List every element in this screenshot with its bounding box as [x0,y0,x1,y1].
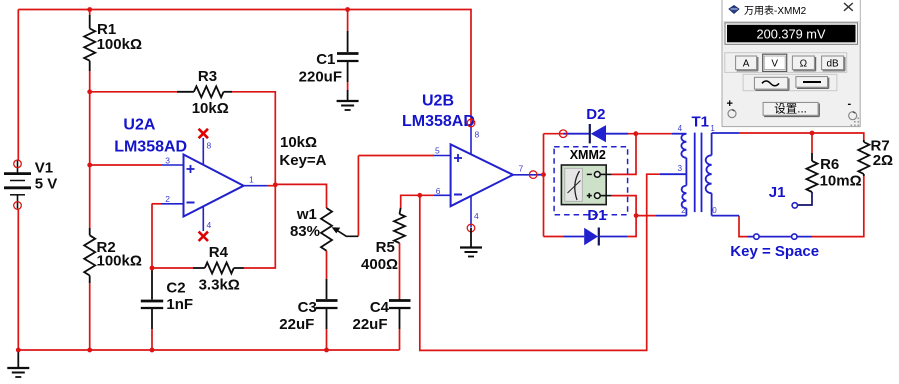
wire U2A output to node [267,185,275,187]
svg-text:XMM2: XMM2 [570,148,606,162]
svg-text:4: 4 [678,124,683,133]
svg-text:8: 8 [475,130,480,140]
ground below C1 [337,90,359,110]
svg-text:220uF: 220uF [299,69,342,86]
wire R1 bottom to R3 node [89,71,91,92]
svg-text:100kΩ: 100kΩ [97,36,142,53]
svg-text:C3: C3 [298,299,317,316]
wire R4 row right feedback [244,185,275,268]
wire C3 bottom [326,329,328,350]
diode D2 [559,124,628,143]
wire left battery branch top [17,10,19,161]
svg-text:U2A: U2A [123,116,155,133]
svg-text:LM358AD: LM358AD [402,113,475,130]
wire C4 bottom [399,329,401,350]
junction pin6 [417,193,422,198]
wire wiper riser from U2B pin5 [357,156,359,236]
button line [796,77,828,88]
wire top supply rail [18,10,471,127]
junction rail C3 [324,348,329,353]
svg-text:J1: J1 [769,184,786,201]
multimeter XMM2 icon [561,165,611,205]
svg-text:-: - [848,98,852,110]
resistor R6 [797,153,862,205]
wire XMM2 minus terminal riser [612,134,636,175]
svg-text:R3: R3 [198,68,217,85]
svg-text:U2B: U2B [422,93,454,110]
svg-text:Key = Space: Key = Space [730,243,819,260]
junction pin7/diodes [541,172,546,177]
svg-text:5 V: 5 V [35,176,58,193]
transformer T1 [656,124,739,216]
button A [736,56,757,70]
wire R5 bottom to C4 [399,243,401,300]
svg-text:83%: 83% [290,223,320,240]
svg-text:R6: R6 [820,156,839,173]
wire D2 row right to T1 pin4 [628,133,672,135]
resistor R2 [84,228,142,283]
wire D1 row right [628,216,637,237]
multimeter XMM2 dashed box [554,147,628,215]
wire C1 bottom stub [347,82,349,90]
svg-text:2: 2 [165,194,170,204]
svg-text:C1: C1 [316,51,335,68]
svg-text:10kΩ: 10kΩ [192,100,229,117]
wire R2 column [89,92,91,228]
svg-text:V: V [771,58,778,69]
button settings [763,102,818,115]
multimeter panel window [722,0,860,127]
svg-text:4: 4 [207,220,212,230]
junction output node [273,182,278,187]
svg-text:+: + [727,98,733,110]
svg-text:5: 5 [435,145,440,155]
junction top rail C1 [345,7,350,12]
wire D2 row left [544,133,564,135]
svg-text:100kΩ: 100kΩ [97,253,142,270]
wire R6 top stub [811,133,813,153]
svg-text:0: 0 [712,206,717,215]
svg-text:1nF: 1nF [166,296,193,313]
button dB [822,56,844,70]
capacitor C4 [352,299,410,333]
svg-text:10kΩ: 10kΩ [280,134,317,151]
svg-text:dB: dB [826,58,839,69]
svg-text:w1: w1 [296,206,317,223]
capacitor C2 [141,268,193,329]
junction pin3 [87,163,92,168]
wire R7 bottom to switch row [812,176,864,237]
svg-text:Ω: Ω [800,58,808,69]
wire R3 row right to output node [232,92,275,185]
svg-text:4: 4 [474,211,479,221]
wire w1 bottom to C3 [326,251,328,279]
no-connect X U2A pin8 [199,129,208,138]
diode D1 [564,228,628,246]
junction rail R2 [87,348,92,353]
wire T1 pin1 to right rail [739,133,864,140]
resistor R1 [84,15,142,71]
wire XMM2 plus terminal drop [612,196,637,216]
wire pin6 node down and across to T1 pin3 riser [420,174,660,350]
svg-text:3: 3 [165,156,170,166]
svg-text:7: 7 [519,164,524,174]
wire bottom ground rail [18,349,399,351]
wire R2 bottom [89,283,91,350]
wire R4 row left [152,267,193,269]
wire U2B pin5 row [358,155,434,157]
svg-text:200.379 mV: 200.379 mV [756,27,825,42]
junction plus/T1 pin2 [634,213,639,218]
svg-text:8: 8 [207,141,212,151]
button V (selected) [763,54,787,71]
svg-text:C4: C4 [370,299,390,316]
wire T1 pin0 drop [739,216,748,237]
svg-text:6: 6 [436,186,441,196]
junction pin2/R4/C2 [150,266,155,271]
wire R1 top stub [89,10,91,16]
terminal circle U2B pin4 [467,224,475,232]
svg-text:3: 3 [678,164,683,173]
no-connect X U2A pin4 [199,232,208,241]
wire node to potentiometer w1 [275,184,326,208]
wire left battery branch bottom [17,210,19,351]
junction D2/T1 pin4 [633,131,638,136]
capacitor C3 [279,279,337,333]
svg-text:400Ω: 400Ω [361,256,398,273]
wire C1 top stub [347,10,349,32]
switch J1 [748,203,813,240]
svg-text:设置...: 设置... [774,102,807,115]
svg-text:3.3kΩ: 3.3kΩ [199,277,240,294]
wire U2B pin6 row to R5 [401,195,434,207]
wire U2A pin2 to C2/R4 node [152,203,161,205]
svg-text:R4: R4 [209,244,229,261]
resistor R5 [361,208,405,273]
svg-text:C2: C2 [166,280,185,297]
potentiometer w1 [279,134,358,251]
battery V1 [4,160,57,210]
svg-text:2: 2 [681,206,686,215]
resistor R4 [193,244,244,294]
svg-text:10mΩ: 10mΩ [820,173,862,190]
junction R1/R3 [87,89,92,94]
svg-text:LM358AD: LM358AD [114,139,187,156]
resistor R3 [177,68,232,117]
svg-text:22uF: 22uF [279,316,314,333]
svg-text:A: A [743,58,750,69]
wire U2A pin3 row [90,164,161,166]
wire U2B pin7 to diode node [537,174,543,176]
svg-text:22uF: 22uF [352,316,387,333]
svg-text:R5: R5 [376,239,395,256]
svg-text:Key=A: Key=A [279,152,326,169]
button sine [754,77,787,89]
svg-text:D1: D1 [587,207,606,224]
op-amp U2A [161,138,267,231]
terminal circle U2B pin7 [529,171,537,179]
svg-text:V1: V1 [35,160,53,177]
svg-text:1: 1 [249,175,254,185]
junction rail C2 [150,348,155,353]
svg-text:1: 1 [710,124,715,133]
svg-text:2Ω: 2Ω [873,152,893,169]
wire R3 row left [90,91,177,93]
ground bottom left [7,350,29,377]
terminal circle U2B pin8 [467,119,475,127]
resistor R7 [858,138,893,177]
ground below U2B [460,228,482,257]
capacitor C1 [299,31,359,86]
junction R6 top [810,131,815,136]
junction top rail R1 [87,7,92,12]
wire D1 row left [544,236,564,238]
svg-text:D2: D2 [586,106,605,123]
svg-text:T1: T1 [692,114,710,131]
junction rail gnd [16,348,21,353]
op-amp U2B [434,127,543,228]
wire C2 bottom [151,329,153,350]
wire plus node to T1 pin2 [636,215,656,217]
wire diode-node vertical D2/D1 [543,134,545,237]
button Ohm [792,56,814,70]
svg-text:万用表-XMM2: 万用表-XMM2 [744,4,807,17]
